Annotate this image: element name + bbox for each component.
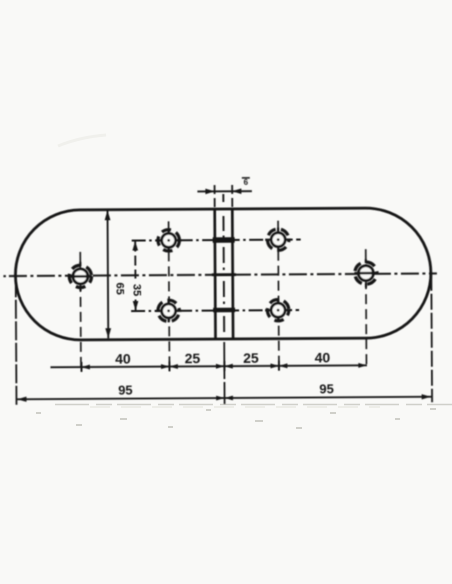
svg-text:40: 40 (315, 349, 331, 365)
svg-text:25: 25 (243, 350, 259, 366)
svg-text:95: 95 (118, 383, 133, 398)
svg-text:95: 95 (319, 381, 334, 396)
svg-text:65: 65 (114, 282, 126, 294)
svg-text:35: 35 (131, 284, 143, 296)
svg-text:40: 40 (115, 351, 131, 367)
svg-text:6: 6 (244, 178, 249, 187)
svg-text:25: 25 (185, 350, 201, 366)
